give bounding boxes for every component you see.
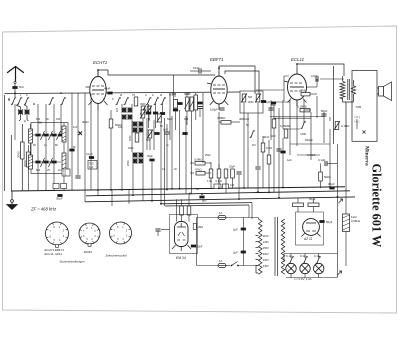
svg-text:1MΩ: 1MΩ [198, 225, 204, 229]
svg-text:K: K [26, 94, 28, 97]
40nF cap on bus [104, 87, 113, 95]
svg-text:3000: 3000 [140, 103, 146, 106]
field coil [343, 160, 360, 266]
speaker box [352, 71, 392, 142]
left tall coils 2000 [11, 124, 30, 191]
svg-text:EBF71: EBF71 [210, 57, 224, 62]
1nF diagonal cap [163, 124, 170, 190]
oscillator switch row [116, 93, 166, 106]
svg-text:M: M [160, 94, 162, 97]
antenna coil transformer [16, 105, 30, 121]
svg-text:2000: 2000 [248, 101, 254, 104]
svg-text:1µF: 1µF [287, 158, 292, 162]
mains feed line 2 [165, 205, 249, 206]
left block extra verticals [15, 94, 129, 207]
svg-text:U: U [103, 98, 105, 101]
svg-text:80: 80 [55, 144, 58, 147]
small parts on bottom buses left [62, 152, 97, 176]
svg-text:K: K [152, 94, 154, 97]
antenna [8, 67, 24, 82]
svg-text:1A: 1A [219, 259, 223, 263]
svg-text:0,1MΩ: 0,1MΩ [341, 124, 349, 128]
10nF cap left of EBF71 [190, 66, 211, 74]
svg-text:U: U [145, 94, 147, 97]
far-left vertical wire [4, 95, 6, 191]
svg-text:3nF: 3nF [271, 134, 276, 138]
bottom bus C [85, 197, 355, 202]
svg-text:30µF: 30µF [56, 197, 63, 201]
svg-text:2n: 2n [58, 169, 61, 172]
svg-text:25: 25 [47, 169, 50, 172]
svg-text:30µF: 30µF [328, 182, 335, 186]
svg-text:500: 500 [248, 96, 253, 99]
svg-text:L: L [20, 94, 22, 97]
svg-text:2000: 2000 [185, 93, 191, 96]
EM34 section [155, 194, 203, 260]
svg-text:500: 500 [172, 93, 177, 96]
svg-text:500: 500 [36, 118, 41, 121]
input band switches [8, 98, 29, 105]
dial lamps [284, 197, 342, 282]
svg-text:200V: 200V [263, 252, 269, 256]
IF transformer 2 [239, 91, 271, 188]
100pF below EBF71 [210, 108, 225, 112]
svg-text:40nF: 40nF [263, 135, 270, 139]
svg-text:5nF: 5nF [19, 85, 24, 89]
svg-text:Sockelschaltungen: Sockelschaltungen [60, 260, 86, 264]
svg-text:50: 50 [33, 144, 36, 147]
ECL11 area horizontals [270, 79, 344, 155]
ECL11 tube [288, 57, 307, 106]
svg-text:47kΩ: 47kΩ [195, 168, 202, 172]
svg-text:100: 100 [116, 107, 119, 112]
svg-text:50pF: 50pF [321, 109, 328, 113]
svg-text:0,5MΩ: 0,5MΩ [217, 116, 225, 120]
svg-text:500: 500 [36, 169, 41, 172]
svg-text:EM 34: EM 34 [176, 256, 186, 260]
0,5MΩ resistor [217, 112, 240, 188]
svg-text:0,15MΩ: 0,15MΩ [297, 105, 307, 109]
svg-text:0,25MΩ: 0,25MΩ [280, 124, 290, 128]
svg-text:75: 75 [132, 93, 135, 97]
2uF caps [233, 218, 246, 266]
bottom bus A [11, 187, 345, 191]
socket circles [46, 222, 132, 247]
svg-text:110V: 110V [263, 234, 269, 238]
svg-text:Minerva: Minerva [363, 146, 369, 166]
svg-text:EM34: EM34 [84, 250, 92, 254]
svg-text:30µF: 30µF [147, 154, 153, 158]
EBF71 top wires [219, 66, 255, 94]
svg-text:2000: 2000 [17, 151, 21, 158]
bottom bus B [86, 191, 350, 196]
svg-text:2000: 2000 [129, 135, 132, 141]
svg-text:2µF: 2µF [233, 251, 238, 255]
svg-text:50µF: 50µF [309, 197, 316, 201]
svg-text:0,1µF: 0,1µF [86, 152, 93, 156]
antenna series capacitor [12, 81, 24, 97]
svg-text:150: 150 [56, 118, 61, 121]
svg-text:2000: 2000 [127, 160, 130, 166]
resistors below ECH71 [82, 110, 122, 196]
svg-text:1n: 1n [166, 144, 169, 147]
svg-text:M: M [120, 94, 122, 97]
svg-text:500: 500 [146, 139, 151, 142]
svg-text:0,5MΩ: 0,5MΩ [194, 158, 202, 162]
svg-text:Gloriette 601 W: Gloriette 601 W [370, 164, 384, 248]
svg-text:50: 50 [246, 124, 249, 127]
power transformer [256, 217, 285, 276]
svg-text:2µF: 2µF [233, 228, 238, 232]
svg-text:50µF: 50µF [326, 220, 333, 224]
IF transformer 1 [169, 75, 203, 194]
svg-text:⊦C ): ⊦C ) [355, 115, 361, 119]
right middle parts [318, 158, 337, 189]
svg-text:K: K [112, 98, 114, 101]
svg-text:8µF: 8µF [202, 199, 207, 203]
svg-text:ECL11, AZ11: ECL11, AZ11 [45, 252, 63, 256]
svg-text:50pF: 50pF [264, 100, 271, 104]
EBF71 tube [210, 57, 227, 110]
svg-text:25pF: 25pF [205, 154, 211, 157]
svg-text:30: 30 [174, 168, 177, 171]
mains feed line 1 [160, 203, 252, 204]
svg-text:M: M [8, 98, 10, 101]
svg-text:0,65kΩ: 0,65kΩ [351, 219, 360, 223]
tube pin stubs [86, 81, 321, 249]
svg-text:ZF = 468 kHz: ZF = 468 kHz [30, 207, 57, 212]
ECH71 tube [90, 60, 108, 110]
line from ECH71 anode to right [97, 70, 99, 75]
svg-text:ECH71: ECH71 [93, 60, 108, 65]
ground symbol [7, 191, 17, 210]
svg-text:1M: 1M [252, 144, 255, 147]
svg-text:1nF: 1nF [230, 184, 235, 187]
speaker [379, 87, 384, 97]
svg-text:2000: 2000 [128, 147, 134, 150]
left coil box [29, 121, 69, 191]
power supply wires top [249, 203, 252, 219]
svg-text:5nF: 5nF [271, 103, 276, 107]
svg-text:30kΩ: 30kΩ [82, 120, 89, 124]
svg-text:100: 100 [118, 126, 123, 129]
fuse 2 + switch [197, 259, 259, 268]
switch below IF2 [250, 131, 255, 138]
svg-text:0,1: 0,1 [162, 168, 166, 171]
svg-text:50kΩ: 50kΩ [324, 175, 331, 179]
svg-text:10nF: 10nF [193, 66, 200, 70]
extra long verticals middle [147, 93, 338, 206]
svg-text:40nF: 40nF [104, 87, 111, 91]
output transformer zigzags [334, 66, 356, 160]
svg-text:220V: 220V [263, 258, 269, 262]
svg-text:150: 150 [146, 118, 151, 121]
svg-text:125V: 125V [263, 240, 269, 244]
svg-text:4700: 4700 [300, 132, 307, 136]
svg-text:1,5k: 1,5k [207, 179, 213, 183]
middle cluster components (x194-245, y158-185) [190, 158, 242, 200]
svg-text:AZ 11: AZ 11 [303, 237, 312, 241]
AZ11 rectifier [293, 197, 333, 245]
svg-text:5k: 5k [73, 146, 76, 149]
svg-text:1nF: 1nF [163, 128, 168, 132]
osc section cap blobs row [140, 93, 188, 150]
ECL11 left column parts [268, 108, 285, 153]
svg-text:240V: 240V [263, 264, 269, 268]
svg-text:1nF: 1nF [73, 126, 78, 129]
svg-text:TAB: TAB [356, 105, 362, 109]
oscillator coils [116, 103, 155, 201]
svg-text:1µF: 1µF [89, 166, 94, 169]
svg-text:1n: 1n [44, 144, 47, 147]
svg-text:30: 30 [46, 118, 49, 121]
wires from switches to bus [38, 104, 61, 133]
svg-text:1A: 1A [219, 211, 223, 215]
middle right small parts x258-272 [255, 130, 271, 192]
8uF cap on bus [53, 184, 229, 203]
svg-text:500pF: 500pF [305, 138, 313, 142]
line ECL11 to transformer [297, 64, 344, 76]
svg-text:2000: 2000 [23, 160, 27, 167]
scattered tiny value labels [8, 93, 255, 191]
main bus y93 [5, 92, 241, 94]
svg-text:ECL11: ECL11 [291, 57, 305, 62]
svg-text:468: 468 [184, 118, 189, 121]
svg-text:200Ω: 200Ω [300, 89, 307, 93]
svg-text:30nF: 30nF [197, 245, 203, 249]
svg-text:150V: 150V [263, 246, 269, 250]
svg-text:50pF: 50pF [167, 118, 173, 121]
fuse 1 [197, 211, 259, 266]
ECL11 right parts [271, 74, 349, 162]
svg-text:Zwischensockel: Zwischensockel [106, 254, 128, 258]
svg-text:25pF: 25pF [229, 165, 235, 169]
svg-text:100pF: 100pF [210, 108, 218, 112]
svg-text:0,1µF: 0,1µF [318, 158, 325, 162]
svg-text:0,5nF: 0,5nF [311, 74, 318, 78]
